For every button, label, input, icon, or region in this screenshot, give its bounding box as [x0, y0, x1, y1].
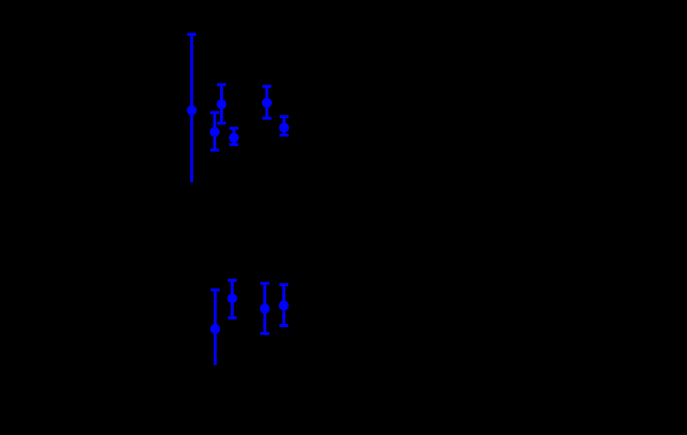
errorbar point 10	[279, 285, 289, 326]
errorbar point 8	[227, 280, 237, 318]
errorbar point 2	[217, 85, 227, 124]
errorbar point 6	[279, 117, 289, 135]
errorbar point 5	[262, 86, 272, 118]
errorbar point 1 (tall bar, no bottom cap)	[187, 34, 197, 182]
errorbar point 4	[229, 128, 239, 144]
errorbar point 3	[210, 113, 220, 151]
errorbar point 7 (no bottom cap)	[210, 290, 220, 365]
errorbar point 9	[260, 283, 270, 333]
